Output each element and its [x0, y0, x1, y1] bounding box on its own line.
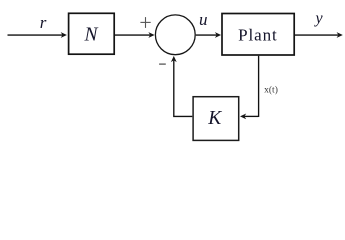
summing junction circle	[155, 15, 195, 55]
block Plant box	[222, 14, 294, 56]
minus sign	[159, 63, 166, 65]
wire: feedback into K right side	[244, 115, 258, 117]
wire: input r arrow into N	[8, 34, 63, 36]
svg-text:y: y	[313, 10, 323, 27]
wire: K output left then up into summing junction	[174, 60, 193, 116]
svg-text:u: u	[199, 10, 208, 29]
svg-text:r: r	[40, 13, 47, 32]
wire: Plant output y arrow	[295, 34, 339, 36]
block N box	[69, 13, 115, 54]
block K box	[193, 97, 239, 141]
svg-text:Plant: Plant	[238, 26, 277, 45]
svg-text:N: N	[83, 25, 98, 46]
wire: Plant bottom down to feedback	[258, 56, 260, 117]
wire: summing junction to Plant, labelled u	[196, 34, 217, 36]
wire: N to summing junction	[114, 34, 150, 36]
plus sign	[140, 17, 150, 28]
svg-text:K: K	[207, 108, 222, 129]
svg-text:x(t): x(t)	[264, 85, 278, 96]
